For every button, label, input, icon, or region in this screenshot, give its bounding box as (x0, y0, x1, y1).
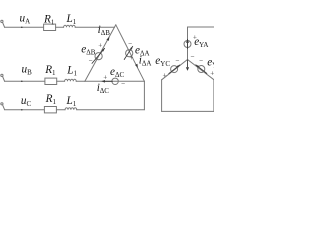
wire B left (5, 80, 45, 82)
svg-text:eΔB: eΔB (81, 44, 95, 57)
source circle e_YA (184, 41, 191, 48)
current arrowhead i_dB (106, 37, 109, 41)
source circle e_dC (112, 78, 118, 84)
inductor L1 row B (65, 79, 77, 81)
wire C mid (56, 109, 65, 111)
svg-text:eY: eY (207, 56, 214, 69)
source circle e_YB (198, 66, 205, 73)
emf arrow e_YA (187, 39, 189, 48)
svg-text:eYC: eYC (155, 55, 170, 68)
svg-text:iΔC: iΔC (97, 82, 110, 95)
emf arrow e_YB (196, 65, 207, 74)
wye center down arrow (187, 60, 189, 68)
wye outline right vertical (213, 80, 215, 112)
wye right branch (188, 60, 214, 80)
wye outline bottom (162, 110, 214, 112)
emf arrow e_dB (92, 48, 105, 63)
emf arrow e_dA (124, 46, 133, 59)
wye vertical branch (187, 27, 189, 60)
svg-text:uC: uC (21, 95, 32, 108)
node dot A (21, 27, 23, 29)
wye top wire (188, 26, 215, 28)
emf arrowhead e_YA (186, 39, 189, 42)
source circle e_dA (126, 50, 133, 57)
emf arrowhead e_dB (102, 48, 105, 51)
inductor L1 row C (65, 108, 77, 110)
svg-text:−: − (175, 57, 179, 65)
wire B right (76, 80, 85, 82)
current arrowhead i_dC (101, 80, 105, 83)
svg-text:L1: L1 (66, 95, 77, 108)
svg-text:+: + (162, 71, 166, 79)
emf arrowhead e_dA (130, 46, 133, 49)
delta right leg (116, 25, 145, 82)
svg-text:R1: R1 (45, 93, 57, 106)
wire C left (5, 109, 45, 111)
emf arrow e_dC (104, 80, 112, 82)
svg-text:uB: uB (22, 63, 33, 76)
svg-text:R1: R1 (44, 64, 56, 77)
wire A right (75, 26, 114, 28)
svg-text:−: − (128, 39, 132, 47)
svg-text:eΔC: eΔC (110, 66, 124, 79)
svg-text:+: + (103, 73, 107, 81)
wye outline left vertical (161, 80, 163, 112)
terminal B (1, 74, 3, 76)
resistor R1 row A (44, 24, 56, 30)
source circle e_YC (171, 66, 178, 73)
wire A left (5, 26, 44, 28)
svg-text:+: + (193, 33, 197, 41)
emf arrowhead e_YC (177, 65, 180, 68)
node dot B (21, 81, 23, 83)
svg-text:−: − (199, 57, 203, 65)
wye left branch (162, 60, 188, 80)
node dot C (21, 109, 23, 111)
wire C right (77, 109, 145, 111)
wire A mid (56, 26, 64, 28)
resistor R1 row B (45, 78, 57, 84)
svg-text:iΔB: iΔB (98, 24, 111, 37)
terminal A (1, 20, 3, 22)
emf arrowhead e_YB (196, 65, 199, 68)
svg-text:+: + (129, 54, 133, 62)
svg-text:+: + (210, 69, 214, 77)
current arrowhead i_dA (135, 64, 138, 68)
terminal C (1, 103, 3, 105)
wire from delta vertex to row C (143, 81, 145, 109)
svg-text:L1: L1 (66, 65, 77, 78)
delta bottom side (85, 80, 144, 82)
svg-text:eΔA: eΔA (135, 45, 150, 58)
svg-text:+: + (98, 42, 102, 50)
delta left leg (85, 25, 116, 82)
svg-text:−: − (88, 57, 92, 65)
svg-text:L1: L1 (66, 13, 77, 26)
inductor L1 row A (64, 25, 76, 27)
wire B mid (57, 80, 65, 82)
svg-text:uA: uA (20, 13, 31, 26)
svg-text:−: − (190, 52, 194, 60)
svg-text:−: − (121, 80, 125, 88)
source circle e_dB (95, 53, 102, 60)
svg-text:R1: R1 (43, 13, 55, 26)
emf arrow e_YC (169, 65, 180, 74)
resistor R1 row C (44, 107, 56, 113)
